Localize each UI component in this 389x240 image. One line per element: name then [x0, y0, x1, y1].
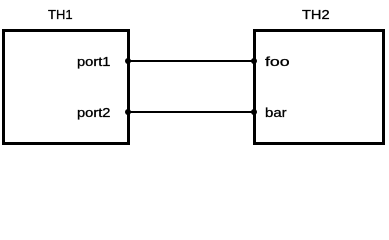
- wire port1-foo: [128, 60, 254, 62]
- label port1: [77, 55, 110, 68]
- label TH1: [48, 8, 73, 21]
- module TH1: [2, 29, 130, 145]
- label foo: [265, 55, 290, 68]
- module TH2: [253, 29, 385, 145]
- wire port2-bar: [128, 111, 254, 113]
- pin port1: [125, 58, 131, 64]
- label bar: [265, 106, 287, 119]
- pin port2: [125, 109, 131, 115]
- label TH2: [302, 8, 330, 21]
- pin bar: [251, 109, 257, 115]
- pin foo: [251, 58, 257, 64]
- label port2: [77, 106, 110, 119]
